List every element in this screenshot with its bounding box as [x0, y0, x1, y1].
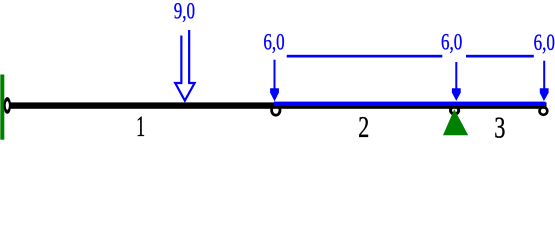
point load arrow 9,0 (outline arrow) [175, 30, 194, 101]
beam [10, 102, 546, 108]
load arrow left (6,0) [270, 60, 279, 102]
load arrow mid (6,0) [452, 62, 461, 101]
hinge ring right end [540, 107, 548, 115]
hinge ring mid (Gerber hinge) [272, 105, 280, 115]
hinge ring at pin support [451, 107, 459, 115]
svg-text:6,0: 6,0 [263, 30, 284, 55]
fixed wall support (left) [0, 75, 4, 140]
svg-text:6,0: 6,0 [534, 31, 555, 56]
svg-text:9,0: 9,0 [174, 0, 195, 24]
svg-text:1: 1 [136, 110, 145, 143]
left pin ring (hinge at wall): hole [6, 101, 9, 110]
distributed load top line segment 2 [466, 55, 534, 58]
pin support triangle [443, 109, 468, 135]
svg-text:2: 2 [358, 109, 369, 143]
load arrow right (6,0) [540, 61, 549, 101]
svg-text:6,0: 6,0 [441, 30, 462, 55]
distributed load baseline (blue over beam) [274, 102, 546, 106]
svg-text:3: 3 [494, 110, 505, 144]
left pin ring (hinge at wall): outer [4, 97, 12, 114]
distributed load top line segment 1 [287, 55, 443, 58]
